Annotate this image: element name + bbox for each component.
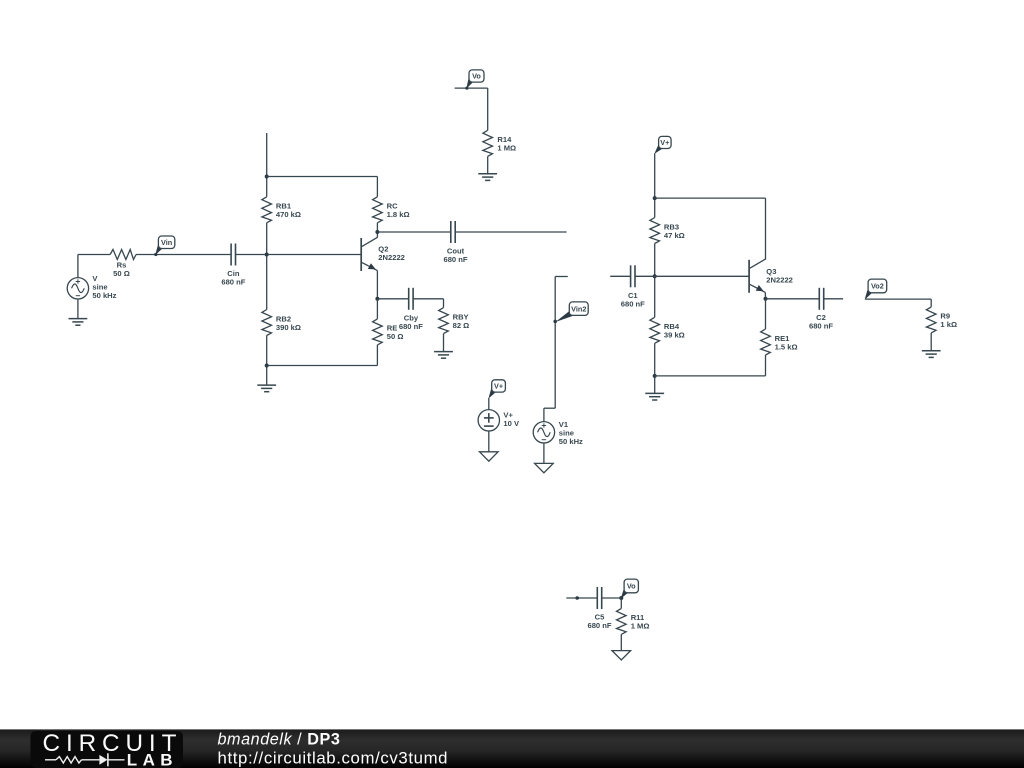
capacitor Cin 680 nF: [230, 244, 232, 266]
wire top rail to RC column: [267, 176, 378, 178]
svg-text:1 kΩ: 1 kΩ: [940, 320, 957, 329]
wire base to Q3: [655, 275, 749, 277]
wire Q2 emitter down to emitter node: [376, 271, 378, 299]
wire flag to V+ source: [488, 398, 490, 410]
wire C1 left stub: [610, 275, 630, 277]
wire RB2 to bottom junction and ground: [266, 336, 268, 385]
svg-text:82 Ω: 82 Ω: [453, 321, 470, 330]
wire main line to Rs: [78, 254, 110, 256]
svg-text:Vin2: Vin2: [571, 304, 586, 313]
wire Vo node to R11: [620, 598, 622, 608]
wire Cby to RBY corner: [413, 298, 443, 300]
wire emitter to Cby: [377, 298, 408, 300]
wire Vo stub: [455, 87, 488, 89]
ground triangle under V1: [535, 463, 554, 472]
svg-text:390 kΩ: 390 kΩ: [276, 323, 301, 332]
ground under V: [69, 318, 88, 320]
svg-text:680 nF: 680 nF: [221, 278, 245, 287]
node Vo2 flag: [865, 289, 873, 300]
resistor RC 1.8 kOhm: [373, 197, 383, 223]
resistor RBY 82 Ohm: [439, 308, 449, 334]
node emitter junction: [375, 297, 379, 301]
svg-text:1.5 kΩ: 1.5 kΩ: [775, 342, 798, 351]
capacitor Cby 680 nF: [408, 288, 410, 310]
resistor RE1 1.5 kOhm: [761, 329, 771, 355]
svg-text:V+: V+: [660, 138, 669, 147]
wire Vin2 riser: [554, 277, 556, 409]
wire RB4 to bottom junction: [654, 343, 656, 393]
svg-text:Vo: Vo: [472, 72, 481, 81]
ground under R9: [922, 350, 941, 352]
wire R11 to ground: [620, 634, 622, 650]
node Vin flag: [155, 245, 163, 255]
ground under RB4: [645, 392, 664, 394]
resistor R9 1 kOhm: [926, 307, 936, 333]
svg-text:2N2222: 2N2222: [378, 253, 405, 262]
wire collector to Cout: [377, 231, 450, 233]
wire down to R14: [487, 88, 489, 130]
wire Cin to base node: [236, 254, 267, 256]
svg-text:50 Ω: 50 Ω: [113, 269, 130, 278]
wire V+ down to RB3: [654, 153, 656, 217]
svg-text:680 nF: 680 nF: [809, 322, 833, 331]
svg-text:LAB: LAB: [127, 751, 178, 768]
transistor Q2 2N2222: [360, 238, 362, 271]
ground triangle under R11: [612, 651, 631, 660]
wire to V1: [544, 407, 555, 409]
wire RB3 to base node: [654, 244, 656, 318]
svg-text:680 nF: 680 nF: [443, 255, 467, 264]
svg-text:Vo: Vo: [627, 582, 636, 591]
node Vo flag (bottom): [621, 589, 629, 599]
wire RBY to ground: [443, 334, 445, 352]
node collector junction: [375, 230, 379, 234]
resistor R11 1 MOhm: [617, 608, 627, 634]
svg-text:http://circuitlab.com/cv3tumd: http://circuitlab.com/cv3tumd: [218, 748, 449, 767]
svg-text:1 MΩ: 1 MΩ: [497, 144, 516, 153]
wire V top to main line: [77, 255, 79, 278]
node bottom-left junction: [265, 364, 269, 368]
wire base to Q2: [267, 254, 362, 256]
capacitor C5 680 nF: [596, 587, 598, 609]
wire Q3 emitter to node: [764, 292, 766, 298]
wire Rs to Cin: [136, 254, 231, 256]
wire Vo2 to R9: [865, 298, 931, 300]
svg-text:Vo2: Vo2: [871, 282, 884, 291]
resistor R14 1 MOhm: [483, 130, 493, 156]
svg-text:10 V: 10 V: [503, 419, 520, 428]
svg-text:50 kHz: 50 kHz: [559, 437, 583, 446]
svg-text:Vin: Vin: [161, 238, 172, 247]
wire bottom rail right: [655, 375, 766, 377]
svg-text:680 nF: 680 nF: [399, 322, 423, 331]
node Q3 emitter junction: [764, 297, 768, 301]
capacitor C1 680 nF: [630, 265, 632, 287]
resistor RB1 470 kOhm: [262, 197, 272, 223]
wire C5 to Vo node: [602, 597, 622, 599]
node V+ flag (right): [654, 144, 663, 154]
svg-text:50 kHz: 50 kHz: [92, 291, 116, 300]
wire Cout to right stub: [455, 231, 566, 233]
ground under RB2: [257, 384, 276, 386]
resistor RE 50 Ohm: [373, 319, 383, 345]
svg-text:1 MΩ: 1 MΩ: [631, 622, 650, 631]
wire top rail right: [655, 197, 766, 199]
wire C2 right stub: [824, 298, 843, 300]
svg-text:680 nF: 680 nF: [587, 621, 611, 630]
resistor RB3 47 kOhm: [650, 218, 660, 244]
footer logo box: [31, 731, 184, 768]
svg-text:470 kΩ: 470 kΩ: [276, 210, 301, 219]
voltage source V (sine 50 kHz): [67, 278, 88, 299]
svg-text:1.8 kΩ: 1.8 kΩ: [387, 210, 410, 219]
wire RE1 to bottom rail: [765, 355, 767, 376]
ground triangle under V+: [480, 452, 499, 461]
resistor Rs 50 Ohm: [110, 250, 136, 260]
wire RB1 to base node: [266, 223, 268, 310]
node top-left junction: [265, 175, 269, 179]
wire emitter to C2: [766, 298, 820, 300]
ground under R14: [478, 173, 497, 175]
logo wire resistor diode: [45, 759, 56, 761]
wire V+ to ground: [488, 431, 490, 452]
svg-text:39 kΩ: 39 kΩ: [664, 331, 685, 340]
svg-text:680 nF: 680 nF: [621, 299, 645, 308]
wire V bottom to ground: [77, 299, 79, 319]
wire R14 to ground: [487, 156, 489, 174]
node base junction right: [653, 274, 657, 278]
wire emitter to RE1: [765, 299, 767, 329]
wire RE to bottom rail: [376, 345, 378, 366]
wire emitter to RE: [376, 299, 378, 319]
wire Vin2 top stub: [555, 276, 568, 278]
resistor RB4 39 kOhm: [650, 317, 660, 343]
ground under RBY: [434, 351, 453, 353]
node base junction: [265, 253, 269, 257]
resistor RB2 390 kOhm: [262, 310, 272, 336]
capacitor Cout 680 nF: [450, 221, 452, 243]
svg-text:bmandelk / DP3: bmandelk / DP3: [218, 731, 341, 749]
wire RC column top lead: [376, 177, 378, 197]
voltage source V1 (sine 50 kHz): [533, 422, 554, 443]
node bottom junction right: [653, 374, 657, 378]
svg-text:47 kΩ: 47 kΩ: [664, 231, 685, 240]
voltage source V+ 10 V: [478, 410, 499, 431]
footer bar: [0, 729, 1024, 768]
wire V1 to ground: [543, 443, 545, 464]
capacitor C2 680 nF: [818, 288, 820, 310]
svg-text:2N2222: 2N2222: [766, 275, 793, 284]
wire bottom rail: [267, 365, 378, 367]
transistor Q3 2N2222: [748, 260, 750, 293]
wire RC to collector node: [376, 223, 378, 238]
wire C5 left stub: [566, 597, 597, 599]
node on C5 stub: [575, 596, 579, 600]
wire R9 to ground: [930, 333, 932, 351]
node V+ junction: [653, 196, 657, 200]
wire bias column stub top: [266, 133, 268, 197]
node Vo flag (top): [466, 79, 474, 89]
wire down to Q3 collector: [765, 198, 767, 260]
node Vin2 flag: [555, 311, 573, 323]
svg-text:50 Ω: 50 Ω: [387, 332, 404, 341]
wire C1 to base node: [635, 275, 655, 277]
svg-text:V+: V+: [494, 382, 503, 391]
node V+ flag (source): [488, 388, 496, 398]
